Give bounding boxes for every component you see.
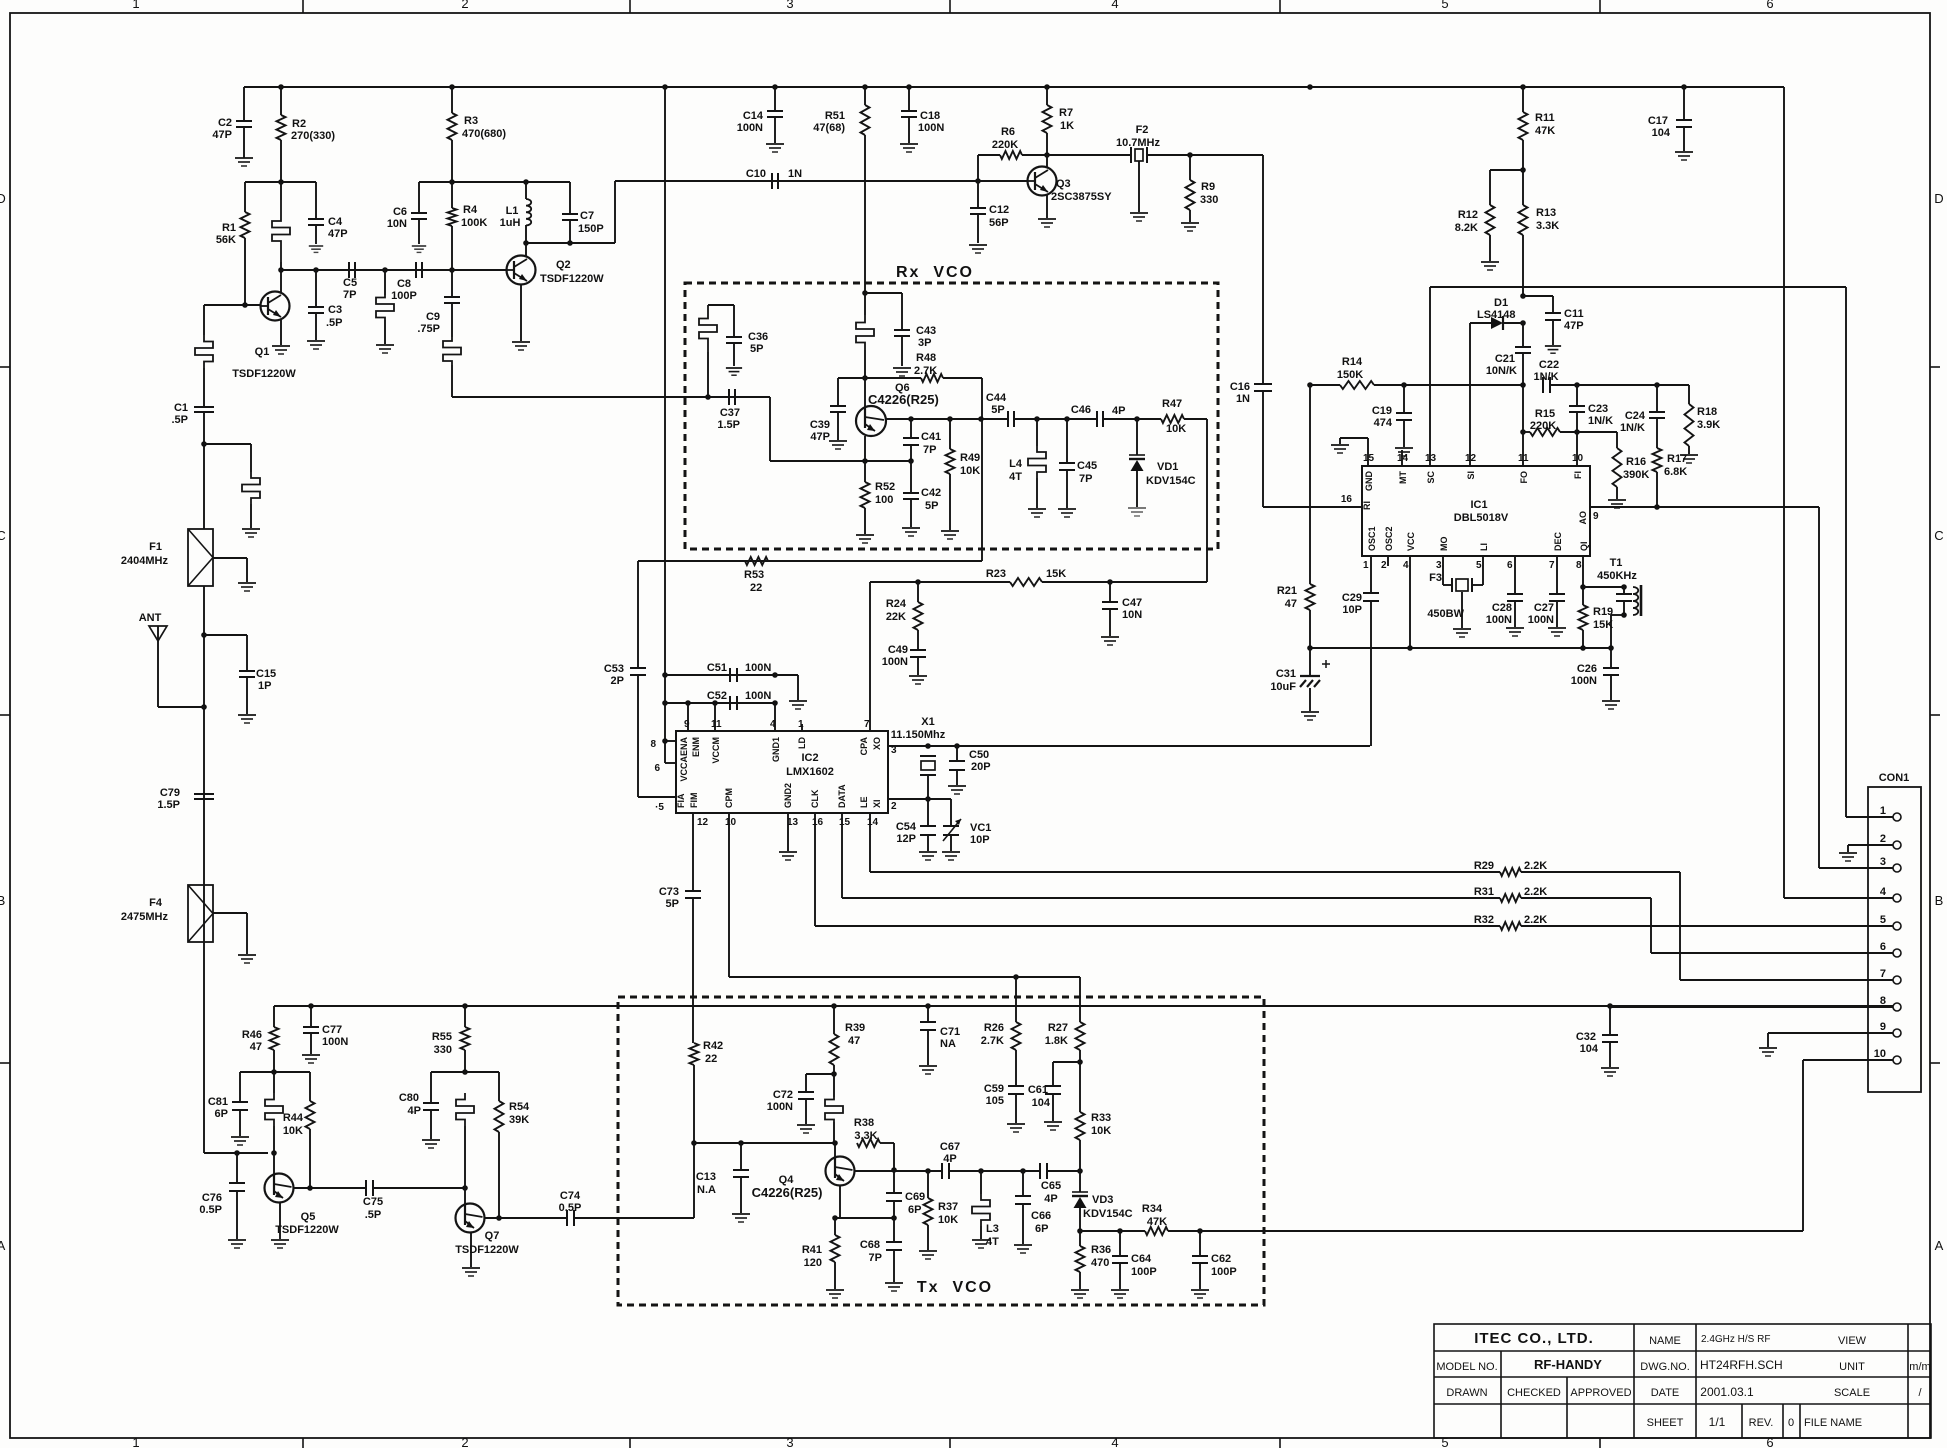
svg-text:5P: 5P (750, 343, 763, 355)
svg-text:3.3K: 3.3K (854, 1130, 877, 1142)
resistor R54 (498, 1072, 500, 1101)
svg-text:5: 5 (1441, 0, 1448, 11)
variable capacitor VC1 (943, 825, 959, 827)
svg-text:GND2: GND2 (783, 783, 793, 808)
wire IC1 RI row (1263, 506, 1362, 508)
wire IC1 pin4 VCC (1409, 556, 1411, 648)
capacitor C49 (910, 649, 926, 651)
svg-text:22K: 22K (886, 611, 906, 623)
svg-text:SI: SI (1466, 471, 1476, 480)
capacitor C64 (1119, 1231, 1121, 1256)
svg-text:15K: 15K (1593, 619, 1613, 631)
svg-text:SC: SC (1426, 471, 1436, 484)
resistor R19 (1582, 587, 1584, 605)
svg-text:4P: 4P (1044, 1193, 1057, 1205)
resistor R36 (1079, 1231, 1081, 1246)
ground L3 (972, 1240, 990, 1248)
microstrip stub Q5 base (265, 1093, 283, 1126)
svg-text:C4226(R25): C4226(R25) (868, 392, 939, 407)
ground Q7 (462, 1268, 480, 1276)
svg-text:7P: 7P (869, 1252, 882, 1264)
resistor R49 (949, 419, 951, 449)
wire CON1 pin10 (1803, 1059, 1893, 1061)
svg-text:FILE NAME: FILE NAME (1804, 1417, 1862, 1429)
title block (1434, 1324, 1931, 1438)
svg-text:7: 7 (864, 719, 870, 730)
ground R36 (1071, 1290, 1089, 1298)
svg-text:10K: 10K (960, 465, 980, 477)
svg-text:10P: 10P (1342, 604, 1362, 616)
capacitor C67 (941, 1163, 943, 1179)
svg-text:C53: C53 (604, 663, 624, 675)
wire C69 (893, 1170, 895, 1193)
svg-text:D1: D1 (1494, 297, 1508, 309)
capacitor C14 (774, 87, 776, 111)
svg-text:MO: MO (1439, 537, 1449, 552)
svg-text:7P: 7P (923, 444, 936, 456)
svg-text:100N: 100N (1486, 614, 1512, 626)
wire CON1 pin7 (1680, 979, 1893, 981)
ground R37 (919, 1251, 937, 1259)
svg-text:R24: R24 (886, 598, 907, 610)
IC U2 box LMX1602 (676, 731, 888, 813)
inductor L4 stub (1036, 419, 1038, 446)
svg-text:100N: 100N (737, 122, 763, 134)
svg-text:4: 4 (1403, 560, 1409, 571)
capacitor C13 (740, 1143, 742, 1170)
svg-text:C7: C7 (580, 210, 594, 222)
svg-text:MODEL NO.: MODEL NO. (1436, 1361, 1497, 1373)
capacitor C71 (927, 1006, 929, 1022)
svg-text:39K: 39K (509, 1114, 529, 1126)
svg-text:2.2K: 2.2K (1524, 914, 1547, 926)
svg-text:4P: 4P (943, 1153, 956, 1165)
wire Q7 bias row (431, 1071, 499, 1073)
svg-text:TSDF1220W: TSDF1220W (232, 368, 296, 380)
svg-text:R42: R42 (703, 1040, 723, 1052)
svg-text:12: 12 (697, 817, 709, 828)
svg-text:9: 9 (684, 719, 690, 730)
svg-text:C81: C81 (208, 1096, 228, 1108)
svg-text:C64: C64 (1131, 1253, 1152, 1265)
svg-text:2: 2 (891, 801, 897, 812)
svg-text:10P: 10P (970, 834, 990, 846)
inductor L1 (525, 182, 527, 199)
svg-text:C22: C22 (1539, 359, 1559, 371)
svg-text:R19: R19 (1593, 606, 1613, 618)
svg-text:10: 10 (1874, 1048, 1886, 1060)
ground C4 (309, 246, 323, 252)
ground R49 (941, 531, 959, 539)
svg-text:TSDF1220W: TSDF1220W (275, 1224, 339, 1236)
wire Q6 collector row (864, 436, 866, 461)
wire node Q1 bias row (245, 181, 316, 183)
svg-text:C8: C8 (397, 278, 411, 290)
ground F1 tap (238, 583, 256, 591)
svg-text:ANT: ANT (139, 612, 162, 624)
wire IC1 pin14 stub (1401, 450, 1403, 466)
capacitor C12 (977, 181, 979, 208)
svg-text:4: 4 (1111, 1435, 1118, 1448)
wire C51 ground leg (775, 674, 798, 676)
svg-text:C10: C10 (746, 168, 766, 180)
svg-text:R11: R11 (1535, 112, 1555, 124)
ground C61 (1044, 1122, 1062, 1130)
capacitor C43 (865, 292, 902, 294)
svg-text:R51: R51 (825, 110, 845, 122)
svg-text:FI: FI (1573, 471, 1583, 479)
svg-text:R21: R21 (1277, 585, 1297, 597)
ground R52 (856, 535, 874, 543)
capacitor C27 (1556, 556, 1558, 594)
svg-text:R7: R7 (1059, 107, 1073, 119)
svg-text:11: 11 (711, 719, 722, 730)
svg-text:MT: MT (1398, 471, 1408, 484)
svg-text:6: 6 (1507, 560, 1513, 571)
svg-text:2.2K: 2.2K (1524, 860, 1547, 872)
svg-text:47: 47 (250, 1041, 262, 1053)
crystal filter F2 10.7MHz (1130, 147, 1132, 163)
wire Q4 collector row (855, 1170, 894, 1172)
svg-text:330: 330 (434, 1044, 452, 1056)
capacitor C7 (569, 182, 571, 214)
ground Q5 (271, 1240, 289, 1248)
ground VC1 (942, 852, 960, 860)
svg-text:F2: F2 (1136, 124, 1149, 136)
svg-text:VD1: VD1 (1157, 461, 1178, 473)
wire supply row VCC2 (274, 1005, 1893, 1007)
svg-text:1/1: 1/1 (1709, 1415, 1726, 1429)
svg-text:0.5P: 0.5P (199, 1204, 222, 1216)
svg-text:CON1: CON1 (1879, 772, 1910, 784)
svg-text:.5P: .5P (365, 1209, 382, 1221)
filter F1 2404MHz (188, 529, 213, 586)
svg-text:470: 470 (1091, 1257, 1109, 1269)
ground C18 (900, 144, 918, 152)
node Q6 base (862, 375, 868, 381)
svg-text:SHEET: SHEET (1647, 1417, 1684, 1429)
svg-text:10: 10 (725, 817, 737, 828)
wire VD1 node (1103, 418, 1161, 420)
svg-text:R49: R49 (960, 452, 980, 464)
svg-text:QI: QI (1579, 541, 1589, 551)
svg-text:100P: 100P (1131, 1266, 1157, 1278)
svg-text:C45: C45 (1077, 460, 1097, 472)
resistor R21 (1309, 385, 1311, 584)
svg-text:6: 6 (1766, 0, 1773, 11)
wire IC2 XO row (888, 745, 1370, 747)
ground C27 (1548, 628, 1566, 636)
svg-text:100K: 100K (461, 217, 487, 229)
capacitor C76 (236, 1153, 238, 1183)
svg-text:1.5P: 1.5P (717, 419, 740, 431)
capacitor C52 (729, 696, 731, 710)
svg-text:R32: R32 (1474, 914, 1494, 926)
ground R18 (1680, 455, 1698, 463)
capacitor C42 (910, 461, 912, 493)
resistor R47 (1161, 415, 1184, 423)
svg-text:VCCAENA: VCCAENA (679, 737, 689, 782)
svg-text:330: 330 (1200, 194, 1218, 206)
svg-text:1: 1 (132, 0, 139, 11)
svg-text:C69: C69 (905, 1191, 925, 1203)
capacitor C9 (451, 270, 453, 297)
ground C12 (969, 245, 987, 253)
svg-text:1N/K: 1N/K (1620, 422, 1645, 434)
ground Q1 (272, 346, 290, 354)
svg-text:4P: 4P (408, 1105, 421, 1117)
svg-text:2.7K: 2.7K (914, 365, 937, 377)
microstrip stub Q7 base (456, 1093, 474, 1126)
capacitor C54 (927, 799, 929, 826)
svg-text:R39: R39 (845, 1022, 865, 1034)
svg-text:47: 47 (1285, 598, 1297, 610)
svg-text:C26: C26 (1577, 663, 1597, 675)
ground C45 (1058, 509, 1076, 517)
svg-text:C39: C39 (810, 419, 830, 431)
wire R23 row (869, 582, 871, 731)
svg-text:RF-HANDY: RF-HANDY (1534, 1357, 1602, 1372)
wire C9 to Rx VCO (452, 396, 708, 398)
svg-text:100N: 100N (745, 662, 771, 674)
svg-text:Q2: Q2 (556, 259, 571, 271)
capacitor C79 (194, 793, 214, 795)
svg-text:C6: C6 (393, 206, 407, 218)
wire CON1 pin1 (1846, 816, 1893, 818)
svg-text:R46: R46 (242, 1029, 262, 1041)
capacitor C61 (1053, 1061, 1080, 1063)
svg-text:VIEW: VIEW (1838, 1335, 1867, 1347)
svg-text:Rx VCO: Rx VCO (896, 264, 974, 281)
resistor R26 (1015, 977, 1017, 1022)
ground C72 (797, 1125, 815, 1133)
resistor R11 (1522, 87, 1524, 112)
svg-text:2P: 2P (611, 675, 624, 687)
svg-text:C41: C41 (921, 431, 941, 443)
svg-text:FIM: FIM (689, 793, 699, 809)
svg-text:11: 11 (1518, 453, 1529, 464)
svg-text:7P: 7P (1079, 473, 1092, 485)
svg-text:6: 6 (1766, 1435, 1773, 1448)
svg-text:15: 15 (839, 817, 851, 828)
wire Q7 emitter (470, 1232, 472, 1267)
wire Q5 bias row (240, 1071, 310, 1073)
svg-text:LI: LI (1479, 543, 1489, 551)
svg-text:9: 9 (1880, 1021, 1886, 1033)
dashed box Rx VCO (685, 283, 1218, 549)
svg-text:1: 1 (1880, 805, 1886, 817)
svg-text:LD: LD (797, 737, 807, 749)
svg-text:C54: C54 (896, 821, 917, 833)
svg-text:10N: 10N (387, 218, 407, 230)
svg-text:C42: C42 (921, 487, 941, 499)
wire R51 to VCO node (862, 290, 868, 296)
svg-text:R44: R44 (283, 1112, 304, 1124)
svg-text:R23: R23 (986, 568, 1006, 580)
wire CON1 pin4 (1784, 897, 1893, 899)
CON1 pin circles (1893, 813, 1901, 821)
resistor R17 (1653, 448, 1662, 472)
svg-text:DATA: DATA (837, 784, 847, 808)
wire C75 to Q7 (374, 1187, 465, 1189)
svg-text:104: 104 (1032, 1097, 1051, 1109)
capacitor C39 (838, 377, 865, 379)
capacitor C37 (728, 389, 730, 405)
svg-text:SCALE: SCALE (1834, 1387, 1870, 1399)
svg-text:R31: R31 (1474, 886, 1494, 898)
svg-text:C50: C50 (969, 749, 989, 761)
svg-text:1: 1 (132, 1435, 139, 1448)
microstrip stub Q6 supply (864, 293, 866, 315)
capacitor C53 (637, 561, 639, 668)
capacitor C80 (430, 1072, 432, 1103)
svg-text:C21: C21 (1495, 353, 1515, 365)
svg-text:C19: C19 (1372, 405, 1392, 417)
wire Tx varicap row (1077, 1228, 1083, 1234)
svg-text:2: 2 (461, 1435, 468, 1448)
svg-text:C46: C46 (1071, 404, 1091, 416)
svg-text:3P: 3P (918, 337, 931, 349)
svg-text:6: 6 (1880, 941, 1886, 953)
svg-text:47: 47 (848, 1035, 860, 1047)
svg-text:150P: 150P (578, 223, 604, 235)
svg-text:1uH: 1uH (500, 217, 521, 229)
wire IC2 pin12 FIM / C73 (692, 813, 694, 891)
svg-text:XO: XO (872, 737, 882, 750)
wire Q5 emitter (279, 1202, 281, 1239)
capacitor C22 (1520, 382, 1526, 388)
capacitor C5 (348, 262, 350, 278)
ground stub F1 (242, 529, 260, 537)
svg-text:R38: R38 (854, 1117, 874, 1129)
svg-text:REV.: REV. (1749, 1417, 1774, 1429)
svg-text:C5: C5 (343, 277, 357, 289)
capacitor C18 (908, 87, 910, 111)
svg-text:12: 12 (1465, 453, 1477, 464)
svg-text:C66: C66 (1031, 1210, 1051, 1222)
wire Q1 base (204, 304, 260, 306)
svg-text:R48: R48 (916, 352, 936, 364)
ground stub (376, 345, 394, 353)
svg-text:C49: C49 (888, 644, 908, 656)
svg-text:100N: 100N (1571, 675, 1597, 687)
svg-text:7: 7 (1880, 968, 1886, 980)
wire IC1 vcc rail row (1310, 647, 1611, 649)
svg-text:10K: 10K (283, 1125, 303, 1137)
capacitor C1 (194, 406, 214, 408)
resistor R16 (1616, 432, 1618, 448)
svg-text:3: 3 (786, 0, 793, 11)
svg-text:5: 5 (1441, 1435, 1448, 1448)
resistor R18 (1688, 385, 1690, 404)
ground C71 (919, 1066, 937, 1074)
capacitor C26 (1610, 648, 1612, 668)
wire Q2 emitter (520, 285, 522, 341)
svg-text:22: 22 (750, 582, 762, 594)
resistor R34 (1145, 1227, 1168, 1235)
svg-text:5P: 5P (991, 404, 1004, 416)
ground C19 (1395, 448, 1413, 456)
wire IC2 pin5 FIA (638, 796, 676, 798)
wire FO column (1522, 385, 1524, 466)
svg-text:AO: AO (1578, 511, 1588, 525)
resistor R38 (857, 1139, 880, 1147)
svg-text:DWG.NO.: DWG.NO. (1640, 1361, 1690, 1373)
ground R16 (1608, 500, 1626, 508)
svg-text:VCCM: VCCM (711, 737, 721, 764)
capacitor C47 (1109, 582, 1111, 602)
resistor R31 row (842, 897, 1500, 899)
svg-text:Q1: Q1 (255, 346, 270, 358)
capacitor C29 (1363, 592, 1379, 594)
resistor R55 (464, 1006, 466, 1027)
svg-text:.75P: .75P (417, 323, 440, 335)
ground C51 (789, 701, 807, 709)
svg-text:1P: 1P (258, 680, 271, 692)
capacitor C10 (771, 173, 773, 189)
resistor R46 (273, 1006, 275, 1027)
resistor R6 (977, 155, 979, 181)
svg-text:6: 6 (654, 763, 660, 774)
svg-text:C27: C27 (1534, 602, 1554, 614)
transistor Q3 (1028, 167, 1057, 196)
wire IC2 pin4 (774, 703, 776, 731)
wire IC2 XI row (888, 798, 951, 800)
svg-text:5: 5 (1476, 560, 1482, 571)
svg-text:GND: GND (1364, 471, 1374, 492)
wire VD3 node (1047, 1170, 1080, 1172)
svg-text:47P: 47P (810, 431, 830, 443)
wire IC2 pin16 CLK (814, 813, 816, 926)
ground VD1 (1128, 508, 1146, 516)
resistor R4 (451, 182, 453, 208)
svg-text:R55: R55 (432, 1031, 452, 1043)
svg-text:C2: C2 (218, 117, 232, 129)
svg-text:C72: C72 (773, 1089, 793, 1101)
dashed box Tx VCO (618, 997, 1264, 1305)
svg-text:F3: F3 (1429, 572, 1442, 584)
svg-text:C36: C36 (748, 331, 768, 343)
ground Q2 (512, 342, 530, 350)
svg-text:R27: R27 (1048, 1022, 1068, 1034)
svg-text:C59: C59 (984, 1083, 1004, 1095)
resistor R32 row (815, 925, 1500, 927)
varactor VD1 (1136, 419, 1138, 455)
svg-text:C17: C17 (1648, 115, 1668, 127)
svg-text:1N: 1N (1236, 393, 1250, 405)
svg-text:R12: R12 (1458, 209, 1478, 221)
svg-text:C: C (1934, 528, 1943, 543)
svg-text:F4: F4 (149, 897, 163, 909)
resistor R41 (834, 1218, 836, 1235)
svg-text:47P: 47P (212, 129, 232, 141)
svg-text:10: 10 (1572, 453, 1584, 464)
svg-text:DEC: DEC (1553, 531, 1563, 551)
svg-text:FIA: FIA (676, 793, 686, 808)
svg-text:C1: C1 (174, 402, 188, 414)
wire branch to stub ground (201, 441, 207, 447)
svg-text:C24: C24 (1625, 410, 1646, 422)
svg-text:4T: 4T (1009, 471, 1022, 483)
svg-text:R17: R17 (1667, 453, 1687, 465)
ground C36 (726, 368, 742, 375)
svg-text:100N: 100N (767, 1101, 793, 1113)
wire Q4 base row (694, 1142, 835, 1144)
wire VCC top bus (244, 86, 1784, 88)
svg-text:C80: C80 (399, 1092, 419, 1104)
ground C49 (909, 676, 927, 684)
wire IC1 pin15 GND (1367, 438, 1369, 466)
